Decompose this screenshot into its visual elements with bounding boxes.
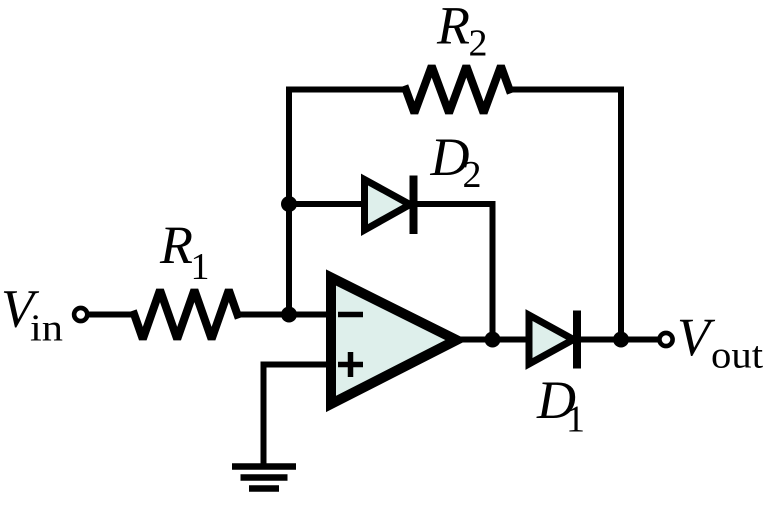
wire D2 cathode to corner down to output node xyxy=(418,204,493,340)
label D2 xyxy=(430,127,482,196)
wire D1 cathode to node D xyxy=(581,337,621,343)
label R1 xyxy=(159,215,210,288)
wire op-amp non-inverting input to ground corner xyxy=(264,365,332,464)
svg-text:R: R xyxy=(159,215,193,275)
svg-text:R: R xyxy=(436,0,470,56)
svg-text:out: out xyxy=(711,335,763,377)
ground xyxy=(232,467,296,489)
wire R1 to op-amp inverting input xyxy=(237,312,331,318)
diode D2 xyxy=(365,176,418,235)
resistor R1 xyxy=(134,290,237,339)
node B D2 branch junction xyxy=(281,196,297,212)
svg-text:2: 2 xyxy=(469,23,488,65)
svg-text:1: 1 xyxy=(191,246,210,288)
node A inverting input junction xyxy=(281,307,297,323)
terminal Vin xyxy=(74,308,87,321)
node D output junction xyxy=(613,332,629,348)
op-amp U1 xyxy=(331,278,457,405)
wire input terminal to R1 xyxy=(89,312,134,318)
label D1 xyxy=(536,370,585,441)
wire op-amp output to node C xyxy=(450,337,493,343)
svg-text:in: in xyxy=(30,308,63,350)
diode D1 xyxy=(529,311,581,369)
wire top feedback left segment xyxy=(289,87,406,93)
terminal Vout xyxy=(659,333,672,346)
label R2 xyxy=(436,0,488,65)
wire node D to output terminal xyxy=(621,337,657,343)
wire D2 anode xyxy=(289,201,362,207)
wire node C to D1 anode xyxy=(493,337,531,343)
label Vout xyxy=(677,307,763,377)
node C op-amp output junction xyxy=(485,332,501,348)
svg-text:1: 1 xyxy=(566,399,585,441)
svg-text:2: 2 xyxy=(463,154,482,196)
wire top feedback right segment and right vertical xyxy=(509,90,621,340)
label Vin xyxy=(1,279,63,350)
resistor R2 xyxy=(406,66,510,113)
wire feedback riser (left vertical) xyxy=(286,90,292,315)
